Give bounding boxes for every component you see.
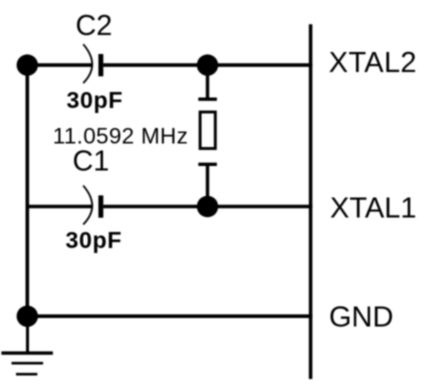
svg-text:C1: C1 xyxy=(73,146,110,178)
node D (GND junction dot) xyxy=(17,306,38,327)
capacitor C2 (curved plate) xyxy=(83,44,92,83)
crystal Y1 (bottom lead) xyxy=(206,164,209,206)
node B (XTAL2/crystal junction dot) xyxy=(197,54,218,75)
wire (XTAL2 net, C2 to chip) xyxy=(103,63,312,67)
capacitor C2 (flat plate) xyxy=(98,54,103,76)
wire (XTAL2 net, left segment to C2) xyxy=(26,63,92,67)
svg-text:30pF: 30pF xyxy=(67,87,124,113)
crystal Y1 (body rectangle) xyxy=(200,112,215,149)
svg-text:C2: C2 xyxy=(76,10,113,42)
crystal Y1 (top plate) xyxy=(198,97,217,100)
capacitor C1 (curved plate) xyxy=(83,186,92,225)
node C (XTAL1/crystal junction dot) xyxy=(197,196,218,217)
wire (XTAL1 net, C1 to chip) xyxy=(103,205,312,209)
wire (GND net) xyxy=(26,314,313,318)
crystal Y1 (bottom plate) xyxy=(198,163,217,166)
node A (left XTAL2 junction dot) xyxy=(17,54,38,75)
ground (lead) xyxy=(26,316,29,353)
svg-text:XTAL2: XTAL2 xyxy=(329,47,417,79)
wire (XTAL1 net, left segment to C1) xyxy=(26,205,92,209)
ground (bar 3) xyxy=(16,373,37,376)
svg-text:30pF: 30pF xyxy=(66,227,123,253)
svg-text:XTAL1: XTAL1 xyxy=(330,193,417,225)
ground (bar 2) xyxy=(12,362,44,365)
ground (bar 1) xyxy=(1,351,53,354)
capacitor C1 (flat plate) xyxy=(98,195,103,217)
crystal Y1 (top lead) xyxy=(206,65,209,99)
wire (left vertical bus) xyxy=(25,63,29,317)
svg-text:GND: GND xyxy=(329,302,393,334)
chip edge rail (right vertical line) xyxy=(309,24,313,379)
